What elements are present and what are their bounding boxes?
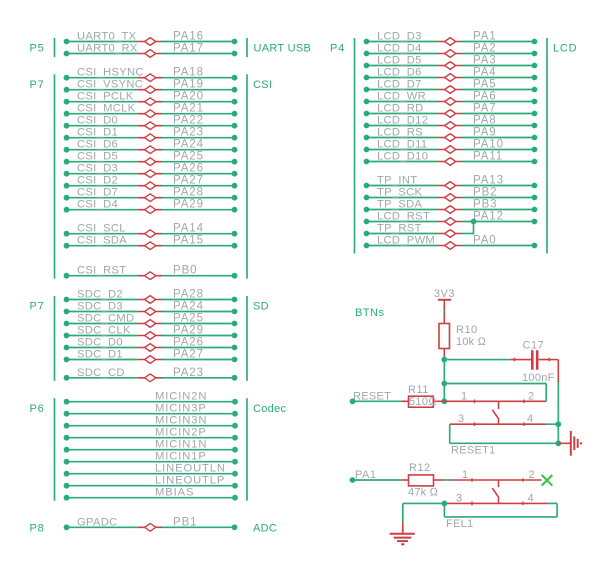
- wire LINEOUTLN: [64, 463, 238, 477]
- wire SDC_D1/PA27: [64, 349, 238, 364]
- no-connect X on FEL1 pin 2: [542, 475, 553, 486]
- svg-text:LCD_D12: LCD_D12: [377, 115, 428, 127]
- wire C17 to switch net: [539, 358, 559, 444]
- switch RESET1 bottom contact line pins 3-4: [450, 413, 561, 427]
- svg-text:MBIAS: MBIAS: [155, 487, 194, 499]
- svg-text:2: 2: [529, 469, 535, 481]
- svg-text:PA0: PA0: [473, 235, 497, 247]
- svg-text:PA22: PA22: [173, 115, 204, 127]
- svg-text:2: 2: [528, 390, 534, 402]
- svg-text:PA18: PA18: [173, 67, 204, 79]
- P7 CSI left bus bar: [54, 74, 56, 278]
- svg-text:LCD_RS: LCD_RS: [377, 127, 423, 139]
- svg-text:PA1: PA1: [473, 31, 497, 43]
- switch FEL1 actuator: [492, 480, 498, 503]
- switch RESET1 actuator: [492, 401, 498, 424]
- svg-text:TP_SCK: TP_SCK: [377, 187, 423, 199]
- svg-text:3V3: 3V3: [434, 288, 455, 300]
- svg-text:CSI_RST: CSI_RST: [77, 265, 126, 277]
- svg-text:PA28: PA28: [173, 187, 204, 199]
- wire SDC_D2/PA28: [64, 289, 238, 304]
- wire LCD_D12/PA8: [364, 115, 538, 130]
- wire CSI_D6/PA24: [64, 139, 238, 154]
- svg-text:LCD_D3: LCD_D3: [377, 31, 422, 43]
- svg-text:LCD_D4: LCD_D4: [377, 43, 422, 55]
- svg-text:PA15: PA15: [173, 235, 204, 247]
- P6 left bus bar: [54, 398, 56, 501]
- wire MICIN2N: [64, 391, 238, 405]
- wire TP_SCK/PB2: [364, 187, 538, 202]
- wire LCD_D7/PA5: [364, 79, 538, 94]
- svg-text:SDC_CLK: SDC_CLK: [77, 325, 131, 337]
- svg-text:PA27: PA27: [173, 349, 204, 361]
- node CSI: [253, 79, 272, 91]
- Codec right bus bar: [246, 398, 248, 501]
- svg-text:PB1: PB1: [173, 516, 197, 528]
- svg-text:P7: P7: [30, 79, 45, 91]
- svg-text:P8: P8: [30, 523, 45, 535]
- svg-text:CSI_MCLK: CSI_MCLK: [77, 103, 136, 115]
- svg-text:PA29: PA29: [173, 325, 204, 337]
- wire CSI_MCLK/PA21: [64, 103, 238, 118]
- svg-text:10k Ω: 10k Ω: [456, 336, 487, 348]
- svg-text:SDC_D3: SDC_D3: [77, 301, 123, 313]
- CSI right bus bar: [246, 74, 248, 278]
- svg-text:P7: P7: [30, 301, 45, 313]
- P4 left bus bar: [354, 38, 356, 254]
- switch RESET1 top contact line pins 1-2: [444, 390, 546, 403]
- junction GND node: [555, 440, 561, 446]
- svg-text:LCD_D10: LCD_D10: [377, 151, 428, 163]
- svg-text:P6: P6: [30, 403, 45, 415]
- svg-text:PA6: PA6: [473, 91, 497, 103]
- svg-text:CSI_D1: CSI_D1: [77, 127, 118, 139]
- connector P4 label: [330, 43, 345, 55]
- svg-text:UART0_TX: UART0_TX: [77, 31, 137, 43]
- svg-text:PA24: PA24: [173, 139, 204, 151]
- svg-text:CSI_HSYNC: CSI_HSYNC: [77, 67, 144, 79]
- svg-text:1: 1: [461, 390, 467, 402]
- svg-text:CSI_SDA: CSI_SDA: [77, 235, 127, 247]
- wire FEL1 pin3 to ground: [403, 503, 445, 533]
- svg-text:RESET1: RESET1: [451, 444, 496, 456]
- wire LCD_D6/PA4: [364, 67, 538, 82]
- svg-text:P5: P5: [30, 43, 45, 55]
- wire MICIN3N: [64, 415, 238, 429]
- svg-text:R11: R11: [408, 384, 429, 396]
- wire LINEOUTLP: [64, 475, 238, 489]
- wire LCD_WR/PA6: [364, 91, 538, 106]
- wire CSI_D1/PA23: [64, 127, 238, 142]
- SD right bus bar: [246, 296, 248, 381]
- svg-text:3: 3: [458, 413, 464, 425]
- wire LCD_RST/PA12: [364, 211, 538, 226]
- svg-text:CSI: CSI: [253, 79, 272, 91]
- resistor R12 47k: [408, 462, 450, 498]
- svg-text:PA23: PA23: [173, 367, 204, 379]
- svg-text:BTNs: BTNs: [355, 307, 385, 319]
- resistor R10 10k: [439, 324, 487, 357]
- wire SDC_CLK/PA29: [64, 325, 238, 340]
- connector P7 label (CSI): [30, 79, 45, 91]
- svg-text:CSI_D6: CSI_D6: [77, 139, 118, 151]
- svg-text:LCD_D11: LCD_D11: [377, 139, 427, 151]
- svg-text:FEL1: FEL1: [446, 518, 474, 530]
- svg-text:MICIN3N: MICIN3N: [155, 415, 207, 427]
- svg-text:LCD_RST: LCD_RST: [377, 211, 430, 223]
- svg-text:PA28: PA28: [173, 289, 204, 301]
- node BTNs section title: [355, 307, 385, 319]
- svg-text:CSI_D4: CSI_D4: [77, 199, 118, 211]
- svg-text:SDC_CMD: SDC_CMD: [77, 313, 134, 325]
- svg-text:PB2: PB2: [473, 187, 497, 199]
- node PA1: [350, 469, 409, 483]
- svg-text:TP_INT: TP_INT: [377, 175, 417, 187]
- svg-text:MICIN1N: MICIN1N: [155, 439, 207, 451]
- wire CSI_VSYNC/PA19: [64, 79, 238, 94]
- svg-text:LCD_PWM: LCD_PWM: [377, 235, 435, 247]
- svg-text:PA7: PA7: [473, 103, 497, 115]
- wire CSI_RST/PB0: [64, 265, 238, 280]
- svg-text:CSI_SCL: CSI_SCL: [77, 223, 126, 235]
- svg-text:1: 1: [462, 469, 468, 481]
- svg-text:100nF: 100nF: [522, 372, 555, 384]
- wire CSI_D3/PA26: [64, 163, 238, 178]
- node SD: [253, 301, 269, 313]
- svg-text:ADC: ADC: [253, 523, 277, 535]
- svg-text:PA17: PA17: [173, 43, 204, 55]
- node LCD: [553, 43, 577, 55]
- wire RESET1 pin3 loop to GND: [450, 424, 561, 456]
- svg-text:PA9: PA9: [473, 127, 497, 139]
- svg-text:TP_SDA: TP_SDA: [377, 199, 423, 211]
- svg-text:LCD_D5: LCD_D5: [377, 55, 422, 67]
- svg-text:PA3: PA3: [473, 55, 497, 67]
- wire to C17: [444, 358, 531, 362]
- switch FEL1 top contact line pins 1-2: [450, 469, 541, 482]
- wire CSI_D2/PA27: [64, 175, 238, 190]
- svg-text:PA14: PA14: [173, 223, 204, 235]
- svg-text:PA27: PA27: [173, 175, 204, 187]
- wire FEL1 pin4 loop: [444, 503, 557, 530]
- svg-text:LINEOUTLP: LINEOUTLP: [155, 475, 225, 487]
- svg-text:CSI_D0: CSI_D0: [77, 115, 118, 127]
- svg-text:P4: P4: [330, 43, 345, 55]
- svg-text:R10: R10: [456, 324, 478, 336]
- switch FEL1 bottom contact line pins 3-4: [442, 492, 558, 506]
- svg-text:CSI_D3: CSI_D3: [77, 163, 118, 175]
- svg-text:LINEOUTLN: LINEOUTLN: [155, 463, 226, 475]
- resistor R11 510: [408, 384, 444, 408]
- svg-text:PA10: PA10: [473, 139, 504, 151]
- wire UART0_RX/PA17: [64, 43, 238, 58]
- svg-text:PA16: PA16: [173, 31, 204, 43]
- svg-text:MICIN1P: MICIN1P: [155, 451, 207, 463]
- svg-text:PA24: PA24: [173, 301, 204, 313]
- junction FEL1 pin3 node: [442, 501, 448, 507]
- wire CSI_PCLK/PA20: [64, 91, 238, 106]
- node UART USB: [254, 43, 312, 55]
- svg-text:LCD_RD: LCD_RD: [377, 103, 424, 115]
- wire UART0_TX/PA16: [64, 31, 238, 46]
- wire LCD_D4/PA2: [364, 43, 538, 58]
- wire LCD_D10/PA11: [364, 151, 538, 166]
- svg-text:PA5: PA5: [473, 79, 497, 91]
- svg-text:SDC_D0: SDC_D0: [77, 337, 123, 349]
- svg-text:CSI_D5: CSI_D5: [77, 151, 118, 163]
- wire TP_SDA/PB3: [364, 199, 538, 214]
- wire R10 to R11 node with junctions: [441, 356, 447, 404]
- wire CSI_D5/PA25: [64, 151, 238, 166]
- svg-text:PA4: PA4: [473, 67, 497, 79]
- wire TP_RST (joins PA12 net): [364, 219, 477, 238]
- wire SDC_D3/PA24: [64, 301, 238, 316]
- svg-text:TP_RST: TP_RST: [377, 223, 422, 235]
- wire SDC_D0/PA26: [64, 337, 238, 352]
- wire SDC_CMD/PA25: [64, 313, 238, 328]
- svg-text:CSI_PCLK: CSI_PCLK: [77, 91, 134, 103]
- wire MICIN2P: [64, 427, 238, 441]
- wire LCD_RS/PA9: [364, 127, 538, 142]
- wire MICIN1P: [64, 451, 238, 465]
- UART right bus bar: [246, 38, 248, 57]
- connector P5 label: [30, 43, 45, 55]
- svg-text:PA19: PA19: [173, 79, 204, 91]
- wire CSI_SDA/PA15: [64, 235, 238, 250]
- wire CSI_SCL/PA14: [64, 223, 238, 238]
- svg-text:CSI_D2: CSI_D2: [77, 175, 118, 187]
- LCD right bus bar: [546, 38, 548, 254]
- svg-text:GPADC: GPADC: [77, 516, 117, 528]
- node ADC: [253, 523, 277, 535]
- svg-text:UART USB: UART USB: [254, 43, 312, 55]
- svg-text:PA2: PA2: [473, 43, 497, 55]
- svg-text:4: 4: [527, 413, 533, 425]
- wire LCD_D5/PA3: [364, 55, 538, 70]
- svg-text:LCD_D6: LCD_D6: [377, 67, 422, 79]
- svg-text:LCD: LCD: [553, 43, 577, 55]
- node Codec: [253, 403, 286, 415]
- junction pin4 to GND net: [555, 421, 561, 427]
- svg-text:PA8: PA8: [473, 115, 497, 127]
- svg-text:PA23: PA23: [173, 127, 204, 139]
- ground (FEL1): [390, 534, 415, 545]
- svg-text:MICIN2N: MICIN2N: [155, 391, 207, 403]
- svg-text:UART0_RX: UART0_RX: [77, 43, 138, 55]
- power supply 3V3: [434, 288, 455, 324]
- wire TP_INT/PA13: [364, 175, 538, 190]
- wire CSI_D4/PA29: [64, 199, 238, 214]
- svg-text:47k Ω: 47k Ω: [408, 486, 439, 498]
- svg-text:LCD_D7: LCD_D7: [377, 79, 422, 91]
- wire LCD_PWM/PA0: [364, 235, 538, 250]
- svg-text:Codec: Codec: [253, 403, 286, 415]
- svg-text:CSI_VSYNC: CSI_VSYNC: [77, 79, 143, 91]
- node RESET: [350, 390, 409, 404]
- P7 SD left bus bar: [54, 296, 56, 381]
- svg-text:CSI_D7: CSI_D7: [77, 187, 118, 199]
- ground (RESET1): [558, 431, 581, 456]
- wire CSI_D7/PA28: [64, 187, 238, 202]
- wire SDC_CD/PA23: [64, 367, 238, 382]
- wire CSI_HSYNC/PA18: [64, 67, 238, 82]
- svg-text:PB3: PB3: [473, 199, 497, 211]
- svg-text:PA13: PA13: [473, 175, 504, 187]
- capacitor C17 100nF: [522, 340, 555, 384]
- svg-text:PA25: PA25: [173, 313, 204, 325]
- svg-text:R12: R12: [409, 462, 431, 474]
- svg-text:MICIN3P: MICIN3P: [155, 403, 207, 415]
- svg-text:MICIN2P: MICIN2P: [155, 427, 207, 439]
- svg-text:PB0: PB0: [173, 265, 197, 277]
- wire LCD_D3/PA1: [364, 31, 538, 46]
- svg-text:510Ω: 510Ω: [409, 396, 437, 408]
- svg-text:SDC_CD: SDC_CD: [77, 367, 125, 379]
- svg-text:PA29: PA29: [173, 199, 204, 211]
- wire MICIN1N: [64, 439, 238, 453]
- svg-text:4: 4: [528, 492, 534, 504]
- svg-text:3: 3: [456, 492, 462, 504]
- wire LCD_RD/PA7: [364, 103, 538, 118]
- wire MBIAS: [64, 487, 238, 501]
- svg-text:PA12: PA12: [473, 211, 504, 223]
- svg-text:PA25: PA25: [173, 151, 204, 163]
- svg-text:PA21: PA21: [173, 103, 204, 115]
- svg-text:PA26: PA26: [173, 163, 204, 175]
- svg-text:SD: SD: [253, 301, 269, 313]
- svg-text:SDC_D2: SDC_D2: [77, 289, 123, 301]
- connector P7 label (SD): [30, 301, 45, 313]
- svg-text:PA26: PA26: [173, 337, 204, 349]
- svg-text:LCD_WR: LCD_WR: [377, 91, 426, 103]
- wire CSI_D0/PA22: [64, 115, 238, 130]
- wire node to RESET1 pin2: [444, 384, 546, 402]
- svg-text:SDC_D1: SDC_D1: [77, 349, 123, 361]
- connector P6 label: [30, 403, 45, 415]
- connector P8 label: [30, 523, 45, 535]
- svg-text:PA20: PA20: [173, 91, 204, 103]
- svg-text:PA11: PA11: [473, 151, 503, 163]
- wire LCD_D11/PA10: [364, 139, 538, 154]
- wire GPADC/PB1: [64, 516, 238, 531]
- junction TP_RST to PA12: [471, 219, 477, 225]
- wire MICIN3P: [64, 403, 238, 417]
- svg-text:C17: C17: [523, 340, 545, 352]
- P5 left bus bar: [54, 38, 56, 57]
